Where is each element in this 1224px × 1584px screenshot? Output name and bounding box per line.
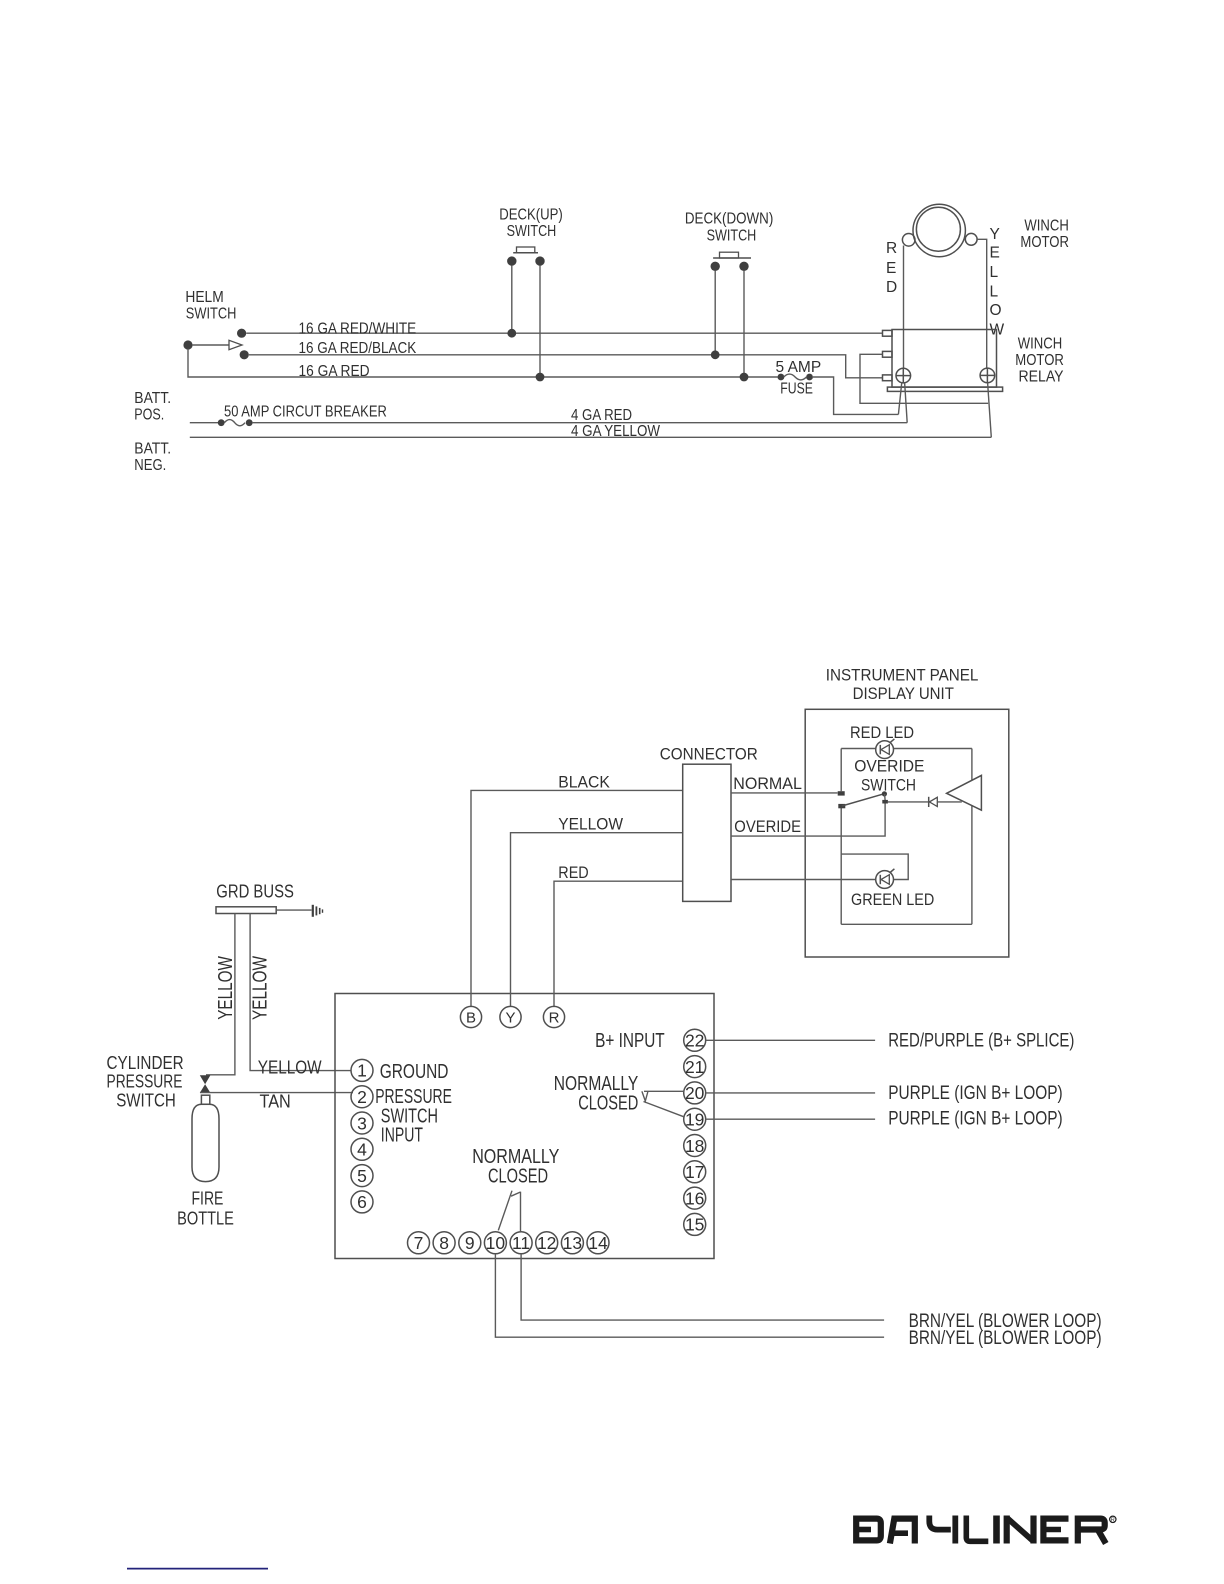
pin 14	[587, 1232, 609, 1254]
svg-text:SWITCH: SWITCH	[116, 1091, 176, 1111]
svg-text:POS.: POS.	[134, 407, 164, 424]
pin 9	[459, 1232, 481, 1254]
svg-text:1: 1	[357, 1061, 367, 1081]
pin 6	[351, 1191, 373, 1213]
pin 15	[684, 1213, 706, 1235]
battery positive wire / 50 amp circuit breaker	[190, 419, 907, 426]
svg-text:BATT.: BATT.	[134, 390, 171, 407]
svg-text:BATT.: BATT.	[134, 441, 171, 458]
wire R (red)	[554, 881, 683, 1006]
fire bottle	[192, 1095, 219, 1181]
svg-text:BOTTLE: BOTTLE	[177, 1209, 234, 1229]
svg-text:3: 3	[357, 1113, 367, 1133]
wire left terminal to 4 GA RED	[905, 382, 908, 423]
svg-text:RED: RED	[558, 863, 588, 882]
svg-text:16 GA RED/WHITE: 16 GA RED/WHITE	[299, 321, 417, 338]
svg-text:8: 8	[439, 1233, 449, 1253]
wire green LED branch	[731, 854, 908, 879]
svg-text:BLACK: BLACK	[558, 773, 610, 792]
svg-text:OVERIDE: OVERIDE	[854, 757, 924, 776]
wire B (black)	[471, 790, 683, 1006]
label BATT. NEG.	[134, 441, 171, 475]
svg-text:SWITCH: SWITCH	[186, 306, 237, 323]
label 5 AMP FUSE	[776, 359, 822, 398]
wire 16 GA RED/BLACK	[249, 355, 883, 378]
label PRESSURE SWITCH INPUT	[375, 1086, 452, 1147]
pin 2	[351, 1086, 373, 1108]
svg-text:R: R	[549, 1010, 560, 1027]
pointer normally-closed to pin 19	[644, 1102, 684, 1117]
svg-text:DECK(UP): DECK(UP)	[499, 207, 563, 224]
svg-text:B: B	[466, 1010, 476, 1027]
svg-text:Y: Y	[990, 226, 1000, 243]
wire yellow B (buss to pin 1)	[250, 914, 351, 1071]
pin 7	[408, 1232, 430, 1254]
svg-text:7: 7	[414, 1233, 424, 1253]
svg-text:WINCH: WINCH	[1024, 218, 1068, 235]
deck down switch	[711, 252, 752, 377]
junction deck-down/line3	[740, 373, 749, 382]
wire relay tab2 loop	[860, 354, 988, 403]
footer blue rule	[127, 1568, 268, 1570]
svg-text:CLOSED: CLOSED	[578, 1093, 638, 1115]
label OVERIDE SWITCH	[854, 757, 924, 795]
label HELM SWITCH	[185, 289, 236, 323]
label DECK(UP) SWITCH	[499, 207, 563, 241]
deck up switch	[507, 247, 545, 377]
svg-text:YELLOW: YELLOW	[558, 815, 623, 834]
svg-text:WINCH: WINCH	[1018, 336, 1062, 353]
wire OVERIDE	[731, 804, 885, 837]
label RED vertical	[886, 240, 897, 296]
label BATT. POS.	[134, 390, 171, 424]
pin 12	[536, 1232, 558, 1254]
pin 20	[684, 1082, 706, 1104]
pin 4	[351, 1138, 373, 1160]
pin 11	[510, 1232, 532, 1254]
svg-text:PURPLE (IGN B+ LOOP): PURPLE (IGN B+ LOOP)	[888, 1083, 1062, 1104]
pin 3	[351, 1112, 373, 1134]
junction deck-up/line1	[507, 329, 516, 338]
pin 22	[684, 1029, 706, 1051]
label WINCH MOTOR	[1020, 218, 1069, 252]
svg-text:O: O	[990, 302, 1002, 319]
svg-text:MOTOR: MOTOR	[1020, 234, 1069, 251]
svg-text:B+ INPUT: B+ INPUT	[595, 1030, 665, 1052]
svg-text:PURPLE (IGN B+ LOOP): PURPLE (IGN B+ LOOP)	[888, 1109, 1062, 1130]
pin 16	[684, 1187, 706, 1209]
svg-text:21: 21	[685, 1057, 704, 1077]
svg-text:FIRE: FIRE	[192, 1189, 224, 1209]
svg-text:NEG.: NEG.	[134, 457, 166, 474]
wire red motor lead	[903, 246, 905, 370]
svg-text:PRESSURE: PRESSURE	[107, 1072, 183, 1092]
wire pin 11 to blower loop	[521, 1254, 884, 1320]
label NORMALLY CLOSED center	[472, 1146, 559, 1188]
svg-text:50 AMP CIRCUT BREAKER: 50 AMP CIRCUT BREAKER	[224, 404, 387, 421]
wire 16 GA RED/WHITE	[246, 332, 882, 334]
pin 18	[684, 1135, 706, 1157]
pin 21	[684, 1056, 706, 1078]
svg-text:16 GA RED/BLACK: 16 GA RED/BLACK	[299, 340, 417, 357]
wire right terminal to 4 GA YELLOW	[988, 383, 992, 438]
svg-text:NORMAL: NORMAL	[733, 774, 802, 793]
svg-text:16 GA RED: 16 GA RED	[299, 363, 370, 380]
label INSTRUMENT PANEL DISPLAY UNIT	[826, 666, 979, 704]
wire pin 10 to blower loop	[495, 1254, 884, 1337]
svg-text:MOTOR: MOTOR	[1015, 352, 1064, 369]
svg-text:GRD BUSS: GRD BUSS	[216, 882, 294, 902]
relay terminal right	[980, 368, 995, 383]
svg-text:BRN/YEL (BLOWER LOOP): BRN/YEL (BLOWER LOOP)	[909, 1328, 1102, 1349]
pin 13	[561, 1232, 583, 1254]
wire yellow motor lead	[977, 239, 987, 368]
svg-text:16: 16	[685, 1188, 704, 1208]
svg-text:D: D	[886, 279, 897, 296]
terminal R	[543, 1006, 564, 1027]
svg-text:15: 15	[685, 1215, 704, 1235]
label WINCH MOTOR RELAY	[1015, 336, 1064, 386]
svg-text:4 GA YELLOW: 4 GA YELLOW	[571, 423, 660, 440]
label NORMALLY CLOSED right	[554, 1073, 639, 1115]
Bayliner logo	[855, 1516, 1106, 1544]
svg-text:13: 13	[563, 1233, 582, 1253]
wire left terminal to fuse line	[898, 382, 901, 414]
relay terminal left	[896, 368, 911, 383]
svg-text:CYLINDER: CYLINDER	[107, 1053, 184, 1073]
svg-text:22: 22	[685, 1031, 704, 1051]
wire 16 GA RED	[188, 349, 778, 377]
svg-text:YELLOW: YELLOW	[258, 1057, 322, 1078]
override switch	[838, 791, 888, 808]
svg-text:6: 6	[357, 1192, 367, 1212]
pointer to pin 11	[511, 1192, 521, 1232]
winch motor relay	[883, 330, 1003, 392]
svg-text:RELAY: RELAY	[1019, 369, 1064, 386]
svg-text:SWITCH: SWITCH	[507, 223, 557, 240]
svg-text:18: 18	[685, 1136, 704, 1156]
svg-text:CONNECTOR: CONNECTOR	[660, 745, 758, 764]
terminal Y	[500, 1006, 521, 1027]
control module box	[335, 994, 714, 1259]
wire NORMAL	[731, 792, 838, 794]
svg-text:RED LED: RED LED	[850, 723, 914, 742]
ground symbol	[313, 905, 323, 917]
pin 1	[351, 1059, 373, 1081]
pin 17	[684, 1161, 706, 1183]
pin 5	[351, 1165, 373, 1187]
svg-text:INSTRUMENT PANEL: INSTRUMENT PANEL	[826, 666, 979, 685]
label CYLINDER PRESSURE SWITCH	[107, 1053, 184, 1111]
svg-text:14: 14	[588, 1233, 608, 1253]
svg-text:9: 9	[465, 1233, 475, 1253]
svg-text:20: 20	[685, 1083, 705, 1103]
helm switch	[183, 329, 248, 360]
svg-text:TAN: TAN	[260, 1091, 291, 1112]
diode	[888, 797, 962, 807]
svg-text:4: 4	[357, 1140, 367, 1160]
fuse F 5 AMP	[778, 374, 813, 381]
svg-text:5: 5	[357, 1166, 367, 1186]
terminal B	[460, 1006, 481, 1027]
svg-text:L: L	[990, 284, 999, 301]
label DECK(DOWN) SWITCH	[685, 211, 773, 245]
wire pin 19 to PURPLE	[706, 1118, 875, 1120]
pointer to pin 10	[498, 1191, 512, 1231]
svg-text:DISPLAY UNIT: DISPLAY UNIT	[853, 684, 954, 703]
svg-text:5 AMP: 5 AMP	[776, 359, 822, 376]
pin 19	[684, 1108, 706, 1130]
pin 10	[484, 1232, 506, 1254]
svg-text:OVERIDE: OVERIDE	[734, 817, 801, 836]
svg-text:2: 2	[357, 1087, 367, 1107]
pin 8	[433, 1232, 455, 1254]
svg-text:L: L	[990, 264, 999, 281]
svg-text:GROUND: GROUND	[380, 1061, 449, 1083]
svg-text:RED/PURPLE (B+ SPLICE): RED/PURPLE (B+ SPLICE)	[888, 1031, 1074, 1052]
svg-text:17: 17	[685, 1162, 704, 1182]
svg-text:HELM: HELM	[185, 289, 223, 306]
buzzer	[947, 775, 982, 810]
svg-text:R: R	[1111, 1518, 1115, 1524]
cylinder pressure switch	[200, 1075, 211, 1093]
svg-text:DECK(DOWN): DECK(DOWN)	[685, 211, 773, 228]
svg-text:YELLOW: YELLOW	[215, 956, 237, 1020]
svg-text:FUSE: FUSE	[780, 381, 813, 398]
wire pin 22 to RED/PURPLE	[706, 1039, 875, 1041]
svg-text:GREEN LED: GREEN LED	[851, 890, 934, 909]
instrument panel display unit box	[805, 709, 1009, 957]
svg-text:E: E	[886, 260, 896, 277]
registered mark	[1110, 1516, 1116, 1523]
wire pin 20 to PURPLE	[706, 1092, 875, 1094]
svg-text:SWITCH: SWITCH	[707, 228, 757, 245]
svg-text:CLOSED: CLOSED	[488, 1166, 548, 1188]
junction deck-down/line2	[711, 350, 720, 359]
svg-text:INPUT: INPUT	[381, 1125, 423, 1147]
connector box	[683, 764, 731, 901]
svg-text:10: 10	[486, 1233, 506, 1253]
svg-text:4 GA RED: 4 GA RED	[571, 407, 632, 424]
wire Y (yellow)	[511, 833, 683, 1007]
label FIRE BOTTLE	[177, 1189, 234, 1229]
svg-text:11: 11	[512, 1233, 530, 1253]
svg-text:12: 12	[537, 1233, 556, 1253]
inner circuit frame	[841, 749, 972, 925]
svg-text:R: R	[886, 240, 897, 257]
svg-text:Y: Y	[505, 1010, 515, 1027]
svg-text:YELLOW: YELLOW	[249, 956, 271, 1020]
svg-text:19: 19	[685, 1110, 704, 1130]
pointer normally-closed to pin 20	[642, 1091, 684, 1101]
svg-text:E: E	[990, 245, 1000, 262]
green LED	[876, 869, 895, 889]
ground buss bar	[216, 907, 312, 914]
wire TAN (switch to pin 2)	[200, 1092, 353, 1094]
junction deck-up/line3	[536, 373, 545, 382]
wire yellow A (buss to pressure switch)	[206, 914, 235, 1075]
battery negative wire 4 GA YELLOW	[190, 436, 992, 438]
svg-text:SWITCH: SWITCH	[861, 776, 916, 795]
red LED	[876, 739, 895, 759]
label YELLOW vertical	[990, 226, 1005, 339]
winch motor	[902, 204, 977, 256]
